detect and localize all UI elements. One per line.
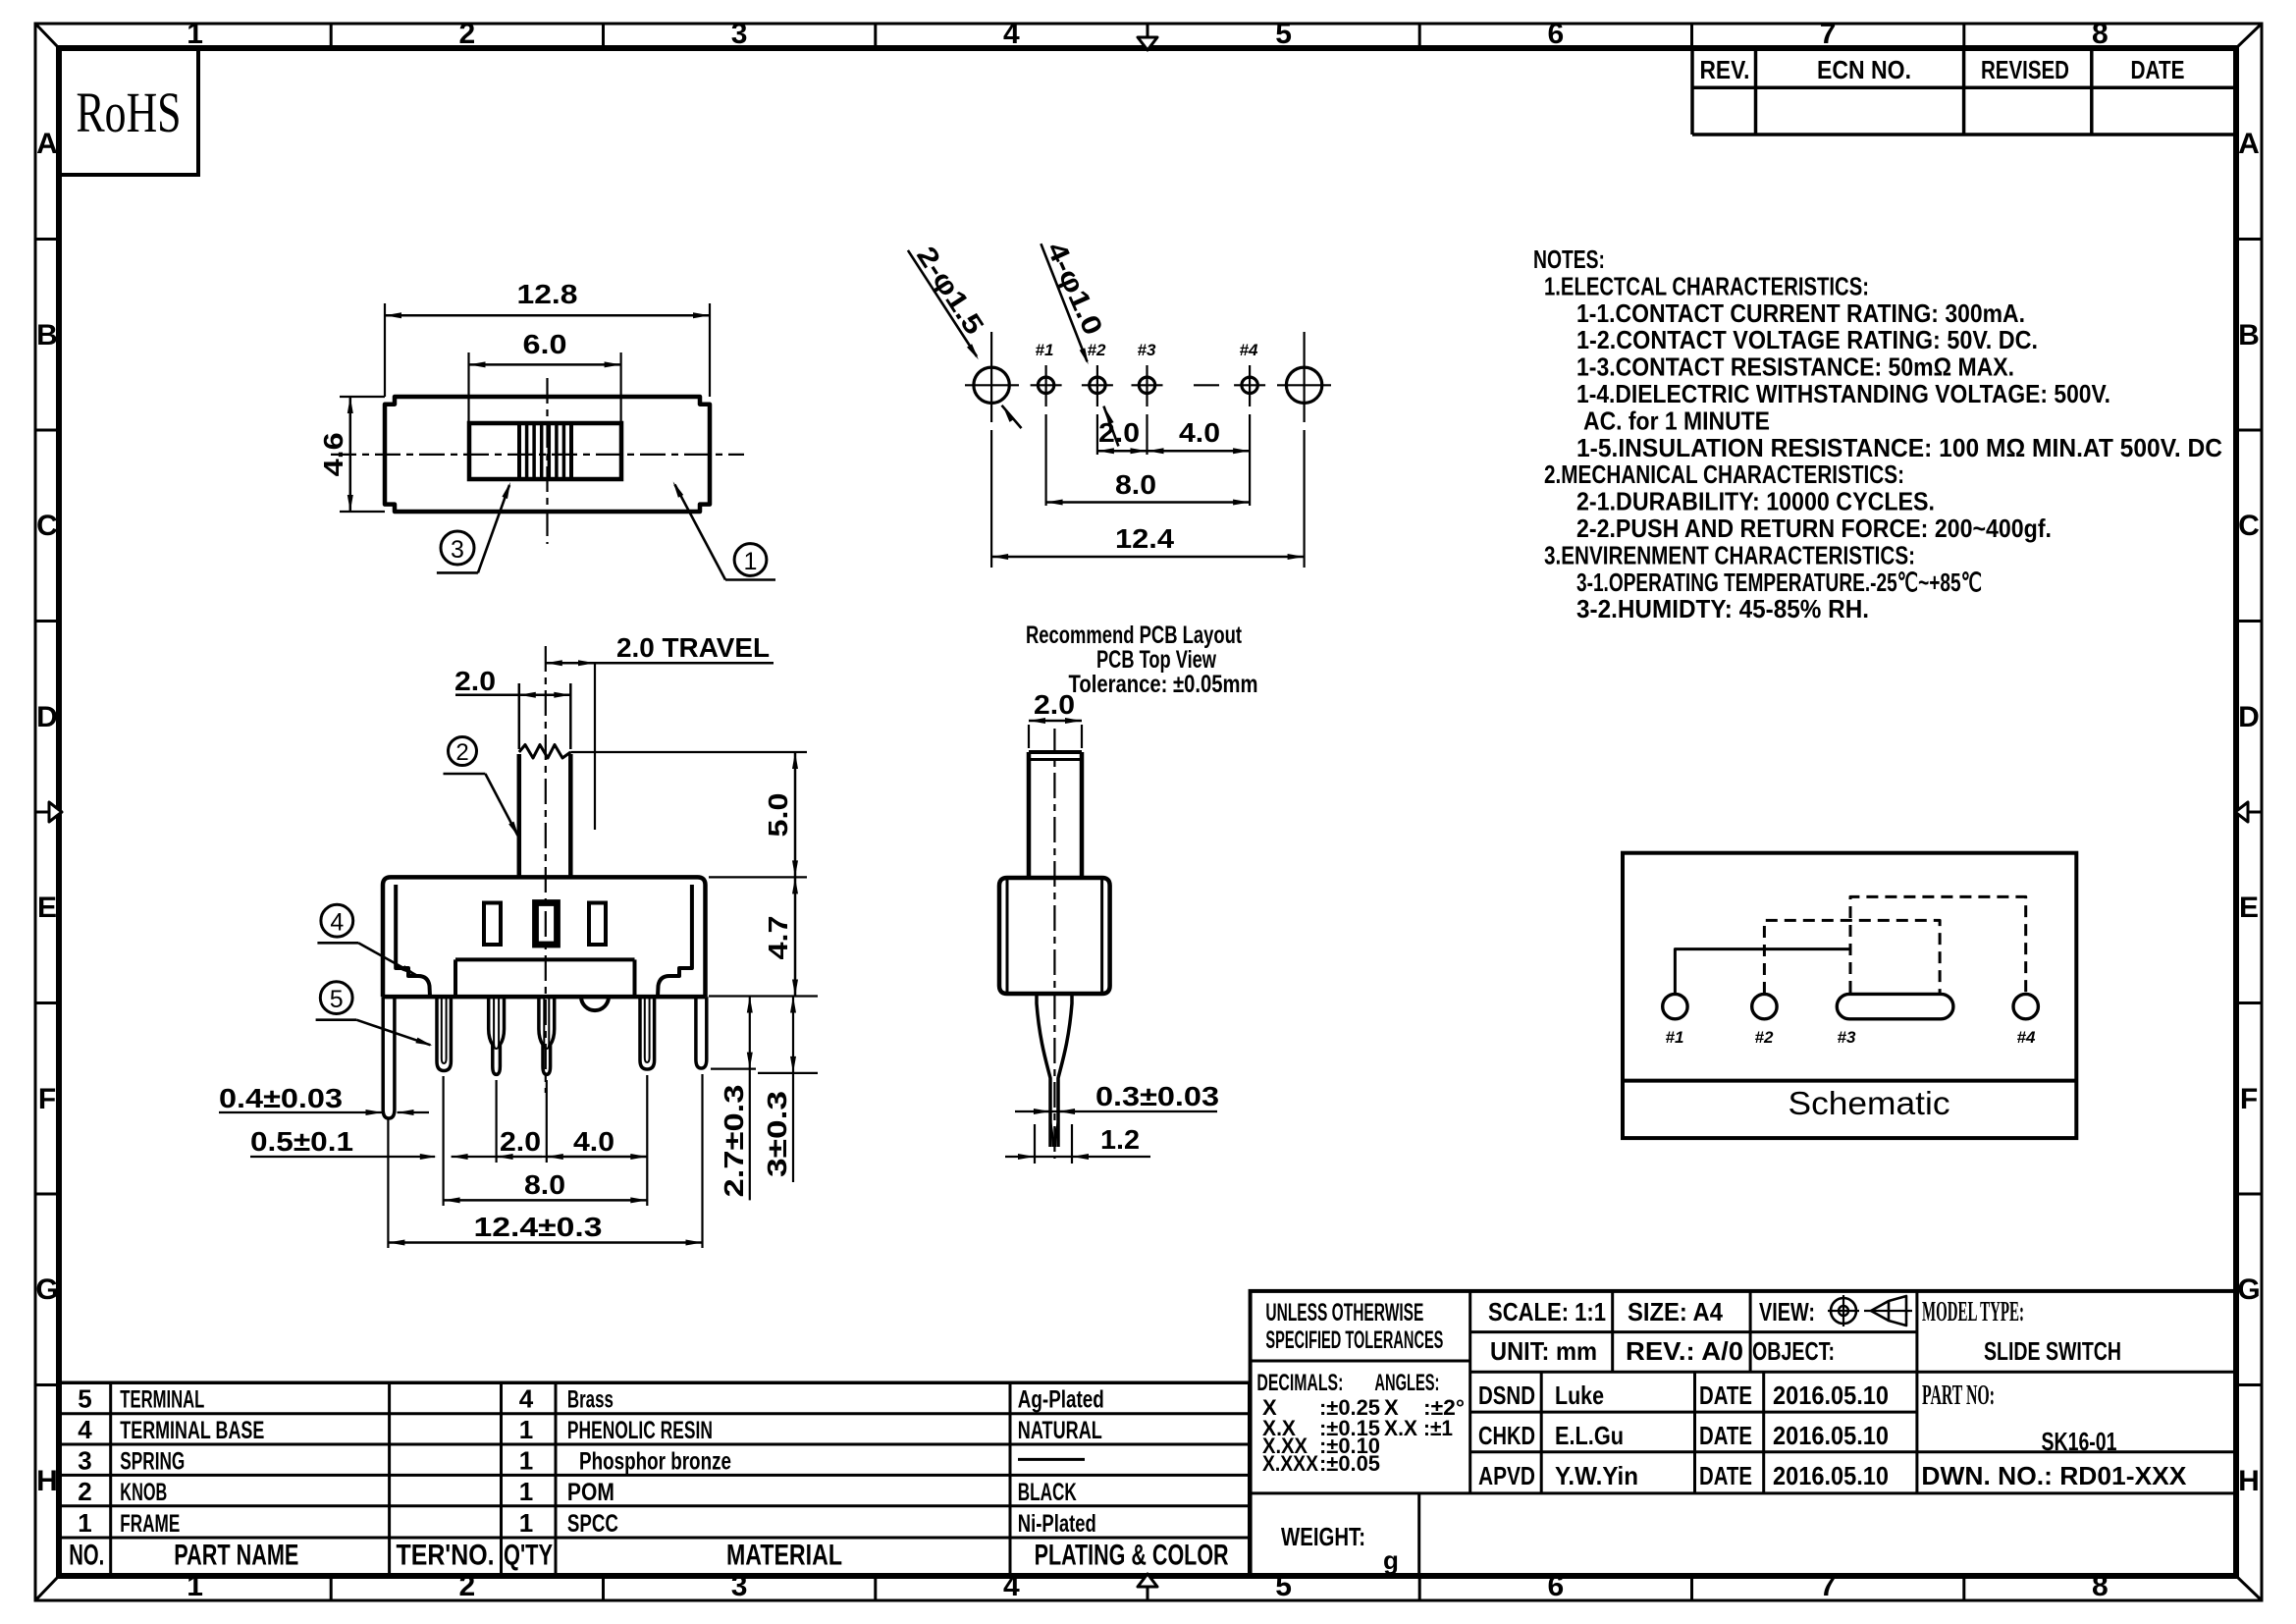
- svg-text:SPRING: SPRING: [120, 1447, 185, 1475]
- svg-text:OBJECT:: OBJECT:: [1752, 1336, 1835, 1366]
- svg-text:2.0: 2.0: [454, 666, 496, 696]
- svg-text:2.0: 2.0: [500, 1126, 541, 1157]
- svg-text:2016.05.10: 2016.05.10: [1773, 1461, 1889, 1490]
- svg-text:12.4: 12.4: [1115, 523, 1174, 554]
- svg-text:DWN. NO.: RD01-XXX: DWN. NO.: RD01-XXX: [1921, 1461, 2187, 1490]
- svg-text:1: 1: [519, 1445, 533, 1475]
- svg-text:F: F: [2240, 1083, 2258, 1115]
- svg-text:#4: #4: [2017, 1028, 2036, 1047]
- svg-text:1-5.INSULATION RESISTANCE: 1: 1-5.INSULATION RESISTANCE: 100 MΩ MIN.AT…: [1576, 433, 2222, 462]
- svg-text:2: 2: [459, 18, 476, 50]
- svg-text:D: D: [36, 701, 58, 733]
- svg-text:SCALE: 1:1: SCALE: 1:1: [1488, 1297, 1606, 1326]
- svg-text:0.4±0.03: 0.4±0.03: [219, 1083, 343, 1113]
- svg-text:4: 4: [519, 1384, 534, 1414]
- svg-text:3: 3: [731, 1570, 748, 1602]
- svg-text:DATE: DATE: [1699, 1380, 1752, 1410]
- svg-text:TER'NO.: TER'NO.: [397, 1540, 495, 1572]
- svg-text:3-2.HUMIDTY: 45-85% RH.: 3-2.HUMIDTY: 45-85% RH.: [1576, 594, 1869, 623]
- svg-text:5: 5: [330, 986, 344, 1013]
- svg-text:2: 2: [459, 1570, 476, 1602]
- svg-text:Recommend PCB Layout: Recommend PCB Layout: [1026, 622, 1242, 649]
- svg-text:A: A: [2238, 128, 2260, 160]
- svg-text:CHKD: CHKD: [1478, 1421, 1535, 1450]
- svg-text:8.0: 8.0: [524, 1169, 565, 1200]
- svg-text:REV.: A/0: REV.: A/0: [1626, 1336, 1743, 1366]
- svg-text:#3: #3: [1838, 1028, 1856, 1047]
- svg-text:WEIGHT:: WEIGHT:: [1281, 1522, 1365, 1551]
- svg-text:2.7±0.3: 2.7±0.3: [719, 1085, 749, 1198]
- svg-text:DATE: DATE: [1699, 1421, 1752, 1450]
- svg-text:X.XXX: X.XXX: [1262, 1451, 1318, 1476]
- svg-text:2: 2: [78, 1477, 91, 1506]
- svg-text:7: 7: [1820, 18, 1837, 50]
- svg-text:APVD: APVD: [1478, 1461, 1535, 1490]
- svg-text:2-2.PUSH AND RETURN FORCE:: 2-2.PUSH AND RETURN FORCE: 200~400gf.: [1576, 514, 2052, 543]
- svg-text:3±0.3: 3±0.3: [762, 1091, 792, 1177]
- svg-text:4: 4: [1003, 1570, 1020, 1602]
- svg-text::±0.05: :±0.05: [1319, 1451, 1380, 1476]
- svg-text:RoHS: RoHS: [77, 81, 182, 144]
- svg-text:E.L.Gu: E.L.Gu: [1555, 1421, 1624, 1450]
- svg-text:Y.W.Yin: Y.W.Yin: [1555, 1461, 1638, 1490]
- svg-text:D: D: [2238, 701, 2260, 733]
- svg-text:ANGLES:: ANGLES:: [1374, 1370, 1439, 1396]
- svg-text:3: 3: [78, 1445, 91, 1475]
- svg-text:PART NAME: PART NAME: [174, 1540, 298, 1572]
- svg-text:8: 8: [2092, 18, 2109, 50]
- svg-text:MODEL TYPE:: MODEL TYPE:: [1922, 1297, 2024, 1327]
- svg-text:0.3±0.03: 0.3±0.03: [1095, 1081, 1219, 1111]
- svg-text:PART NO:: PART NO:: [1922, 1380, 1995, 1411]
- svg-text:2.MECHANICAL CHARACTERISTICS:: 2.MECHANICAL CHARACTERISTICS:: [1544, 460, 1904, 489]
- svg-text:12.4±0.3: 12.4±0.3: [474, 1212, 603, 1242]
- svg-text:DATE: DATE: [2131, 55, 2185, 84]
- svg-text:PLATING & COLOR: PLATING & COLOR: [1035, 1540, 1229, 1572]
- svg-text:NOTES:: NOTES:: [1533, 244, 1605, 274]
- svg-text:1: 1: [519, 1415, 533, 1444]
- svg-text:5: 5: [78, 1384, 91, 1414]
- svg-text:PHENOLIC RESIN: PHENOLIC RESIN: [567, 1417, 713, 1444]
- svg-text:1-2.CONTACT VOLTAGE RATING:: 1-2.CONTACT VOLTAGE RATING: 50V. DC.: [1576, 325, 2038, 354]
- svg-text:E: E: [37, 892, 57, 924]
- svg-text:1-1.CONTACT CURRENT RATING:: 1-1.CONTACT CURRENT RATING: 300mA.: [1576, 298, 2025, 328]
- svg-text:Q'TY: Q'TY: [504, 1540, 553, 1572]
- svg-text:1: 1: [187, 18, 203, 50]
- svg-text:2016.05.10: 2016.05.10: [1773, 1421, 1889, 1450]
- svg-text::±1: :±1: [1423, 1416, 1453, 1440]
- svg-text:4: 4: [78, 1415, 92, 1444]
- svg-text:2-1.DURABILITY: 10000 CYCLES: 2-1.DURABILITY: 10000 CYCLES.: [1576, 487, 1935, 516]
- svg-text:REVISED: REVISED: [1981, 55, 2069, 84]
- svg-text:4.7: 4.7: [763, 916, 793, 960]
- svg-text:SPCC: SPCC: [567, 1510, 618, 1538]
- svg-text:UNIT: mm: UNIT: mm: [1490, 1336, 1597, 1366]
- svg-text:B: B: [36, 319, 58, 352]
- svg-text:2.0: 2.0: [1034, 689, 1075, 720]
- svg-text:Phosphor bronze: Phosphor bronze: [579, 1447, 731, 1475]
- svg-text:SK16-01: SK16-01: [2042, 1427, 2117, 1456]
- svg-text:BLACK: BLACK: [1018, 1479, 1077, 1506]
- svg-text:A: A: [36, 128, 58, 160]
- svg-text:H: H: [2238, 1465, 2260, 1497]
- svg-text:1: 1: [744, 548, 758, 575]
- svg-text:Ni-Plated: Ni-Plated: [1018, 1510, 1096, 1538]
- svg-text:#4: #4: [1240, 341, 1258, 359]
- svg-text:TERMINAL BASE: TERMINAL BASE: [120, 1417, 264, 1444]
- svg-text:Ag-Plated: Ag-Plated: [1018, 1386, 1104, 1414]
- svg-text:DECIMALS:: DECIMALS:: [1256, 1370, 1343, 1396]
- svg-text:C: C: [36, 510, 58, 542]
- svg-text:4.6: 4.6: [318, 432, 348, 476]
- svg-text:1-3.CONTACT RESISTANCE: 50mΩ: 1-3.CONTACT RESISTANCE: 50mΩ MAX.: [1576, 352, 2014, 382]
- svg-text:2.0 TRAVEL: 2.0 TRAVEL: [616, 632, 770, 663]
- svg-text:1: 1: [519, 1508, 533, 1538]
- svg-text:Brass: Brass: [567, 1386, 614, 1414]
- svg-text:PCB Top View: PCB Top View: [1096, 646, 1216, 674]
- svg-text:5.0: 5.0: [763, 793, 793, 838]
- svg-text:SLIDE SWITCH: SLIDE SWITCH: [1984, 1336, 2121, 1366]
- svg-text:6.0: 6.0: [523, 329, 567, 359]
- svg-text:B: B: [2238, 319, 2260, 352]
- svg-text:4: 4: [1003, 18, 1020, 50]
- svg-text:#2: #2: [1088, 341, 1106, 359]
- svg-text:#1: #1: [1036, 341, 1054, 359]
- svg-text:8.0: 8.0: [1115, 469, 1156, 500]
- svg-text:NATURAL: NATURAL: [1018, 1417, 1102, 1444]
- svg-text:F: F: [38, 1083, 56, 1115]
- svg-text:#2: #2: [1755, 1028, 1774, 1047]
- svg-text:Tolerance: ±0.05mm: Tolerance: ±0.05mm: [1069, 671, 1258, 698]
- svg-text:AC. for 1 MINUTE: AC. for 1 MINUTE: [1583, 406, 1770, 435]
- svg-text:DATE: DATE: [1699, 1461, 1752, 1490]
- svg-text:VIEW:: VIEW:: [1759, 1297, 1815, 1326]
- svg-text:REV.: REV.: [1700, 55, 1750, 84]
- svg-text:Schematic: Schematic: [1789, 1085, 1950, 1121]
- svg-text:DSND: DSND: [1478, 1380, 1535, 1410]
- svg-text:1: 1: [519, 1477, 533, 1506]
- svg-text:3.ENVIRENMENT CHARACTERISTICS: 3.ENVIRENMENT CHARACTERISTICS:: [1544, 540, 1915, 569]
- svg-text:X.X: X.X: [1384, 1416, 1417, 1440]
- svg-text:4.0: 4.0: [1179, 417, 1220, 448]
- svg-text:1: 1: [187, 1570, 203, 1602]
- svg-text:G: G: [2237, 1273, 2260, 1306]
- svg-text:0.5±0.1: 0.5±0.1: [250, 1126, 353, 1157]
- svg-text:POM: POM: [567, 1479, 614, 1506]
- svg-text:4: 4: [330, 909, 344, 937]
- svg-text:E: E: [2239, 892, 2259, 924]
- svg-text:#1: #1: [1666, 1028, 1684, 1047]
- svg-text:3: 3: [731, 18, 748, 50]
- svg-text:SIZE: A4: SIZE: A4: [1628, 1297, 1723, 1326]
- svg-text:3-1.OPERATING TEMPERATURE.-25: 3-1.OPERATING TEMPERATURE.-25℃~+85℃: [1576, 568, 1982, 597]
- svg-text:2016.05.10: 2016.05.10: [1773, 1380, 1889, 1410]
- svg-text:g: g: [1383, 1545, 1399, 1575]
- svg-text:TERMINAL: TERMINAL: [120, 1386, 204, 1414]
- svg-text:C: C: [2238, 510, 2260, 542]
- svg-text:H: H: [36, 1465, 58, 1497]
- svg-text:5: 5: [1275, 18, 1292, 50]
- svg-text:2: 2: [455, 739, 468, 766]
- svg-text:6: 6: [1548, 18, 1565, 50]
- svg-text:MATERIAL: MATERIAL: [726, 1540, 842, 1572]
- svg-text:SPECIFIED TOLERANCES: SPECIFIED TOLERANCES: [1265, 1326, 1443, 1354]
- svg-text:UNLESS OTHERWISE: UNLESS OTHERWISE: [1265, 1299, 1423, 1326]
- svg-text:4.0: 4.0: [573, 1126, 614, 1157]
- svg-text:3: 3: [451, 536, 464, 564]
- svg-text:G: G: [35, 1273, 58, 1306]
- svg-text:12.8: 12.8: [517, 279, 578, 309]
- svg-text:#3: #3: [1138, 341, 1156, 359]
- svg-text:FRAME: FRAME: [120, 1510, 180, 1538]
- svg-text:NO.: NO.: [69, 1540, 104, 1572]
- svg-text:2.0: 2.0: [1098, 417, 1140, 448]
- svg-text:1-4.DIELECTRIC WITHSTANDING: 1-4.DIELECTRIC WITHSTANDING VOLTAGE: 500…: [1576, 379, 2110, 408]
- svg-text:Luke: Luke: [1555, 1380, 1604, 1410]
- svg-text:KNOB: KNOB: [120, 1479, 167, 1506]
- svg-text:ECN NO.: ECN NO.: [1817, 55, 1911, 84]
- svg-text:1: 1: [78, 1508, 91, 1538]
- svg-text:1.2: 1.2: [1100, 1124, 1140, 1155]
- svg-text:1.ELECTCAL CHARACTERISTICS:: 1.ELECTCAL CHARACTERISTICS:: [1544, 271, 1869, 300]
